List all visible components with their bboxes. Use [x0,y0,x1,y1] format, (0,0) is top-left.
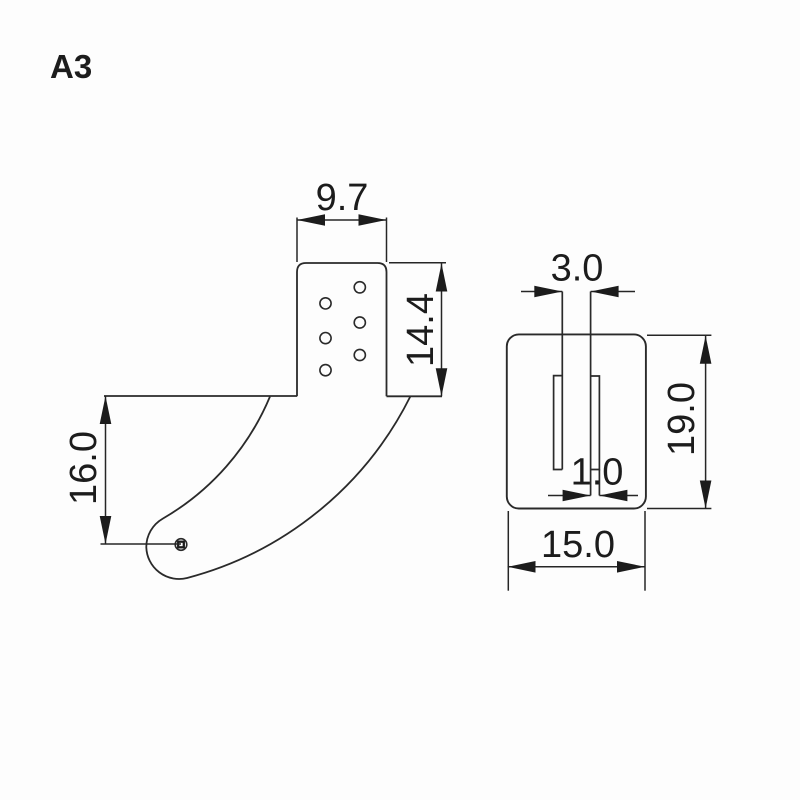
pivot hole at horn tip [175,539,187,551]
3.0 arrow right (points left) [591,286,619,298]
1.0 tail left [548,495,591,497]
9.7 extension line left [296,218,298,263]
hole block right column [354,282,365,293]
15.0 arrow right [617,561,645,573]
14.4 dimension line [441,264,443,397]
16.0 leader to pivot hole [101,543,182,545]
16.0 arrow up [100,396,112,424]
right slot right edge extension for 1.0 [598,470,600,496]
svg-text:15.0: 15.0 [541,524,615,566]
svg-text:19.0: 19.0 [661,382,703,456]
19.0 extension line top [647,334,711,336]
dimension 15.0 [508,511,646,591]
14.4 extension line top [389,262,446,264]
3.0 tail right [591,291,635,293]
3.0 arrow left (points right) [534,286,562,298]
19.0 arrow down [700,481,712,509]
9.7 arrow left [297,214,325,226]
9.7 extension line right [386,218,388,263]
dimension 14.4 [389,263,446,397]
15.0 extension line right [644,511,646,591]
19.0 arrow up [700,336,712,364]
1.0 tail right [599,495,638,497]
1.0 arrow right (points left) [599,490,627,502]
svg-text:A3: A3 [50,48,92,85]
16.0 dimension line [105,396,107,544]
right slot left edge + 3.0 extension + 1.0 extension [590,292,592,496]
16.0 arrow down [100,516,112,544]
dimension 9.7 [297,218,387,263]
horn block outline [297,263,387,396]
dimension 19.0 [647,335,711,508]
9.7 dimension line [297,219,387,221]
pivot hole inner square [178,542,184,548]
19.0 dimension line [705,336,707,509]
horn fin curved outline [146,397,410,579]
hole block left column [320,298,331,309]
svg-text:1.0: 1.0 [571,452,624,494]
15.0 dimension line [508,566,646,568]
svg-text:14.4: 14.4 [400,293,442,367]
14.4 arrow up [436,264,448,292]
horn fin left top edge / 16.0 extension line [104,395,297,397]
horn fin right top edge / 14.4 bottom extension line [387,395,443,397]
14.4 arrow down [436,368,448,396]
left slot outline [554,376,563,470]
dimension 1.0 [548,495,638,497]
19.0 extension line bottom [647,508,711,510]
svg-text:16.0: 16.0 [63,431,105,505]
base plate rounded rectangle [507,334,646,508]
svg-text:3.0: 3.0 [551,248,604,290]
svg-text:9.7: 9.7 [316,177,369,219]
dimension 3.0 [521,291,635,293]
15.0 extension line left [507,511,509,591]
left slot right edge + 3.0 extension [561,292,563,470]
right slot outline [591,376,600,470]
9.7 arrow right [359,214,387,226]
dimension 16.0 [101,396,182,544]
15.0 arrow left [508,561,536,573]
1.0 arrow left (points right) [563,490,591,502]
3.0 tail left [521,291,562,293]
